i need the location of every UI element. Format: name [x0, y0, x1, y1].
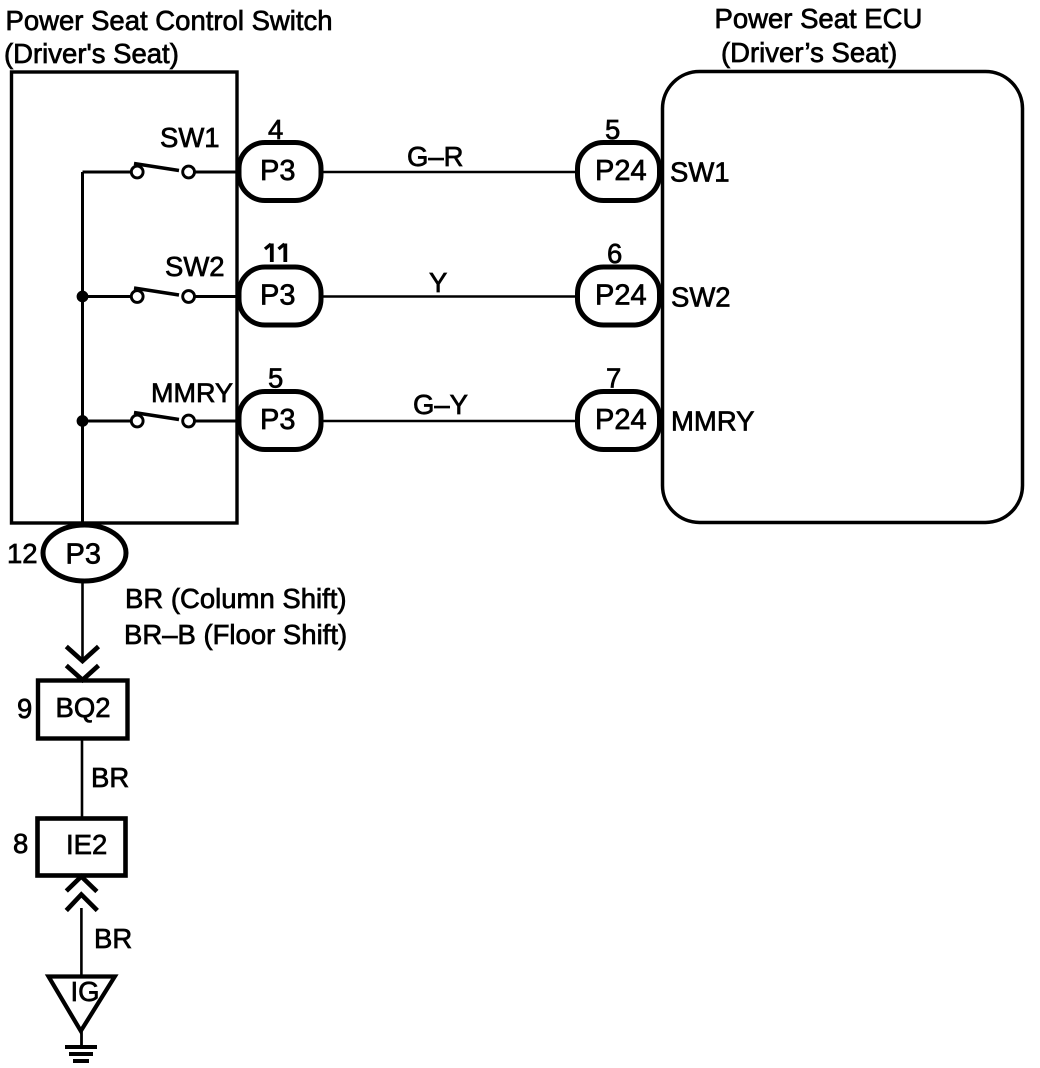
power seat ECU box U1 — [663, 72, 1023, 523]
svg-text:P24: P24 — [595, 280, 647, 312]
svg-text:MMRY: MMRY — [671, 406, 755, 437]
label: Power Seat ECU title — [715, 3, 923, 68]
wire BR 2 — [80, 908, 83, 976]
wire BR — [81, 739, 84, 820]
svg-text:P3: P3 — [260, 155, 295, 187]
svg-text:Power Seat ECU: Power Seat ECU — [715, 3, 923, 34]
svg-text:SW1: SW1 — [670, 157, 730, 188]
splice arrows up — [66, 877, 97, 911]
label SW2 — [165, 251, 225, 282]
connector IE2 — [38, 819, 126, 876]
wire Y — [320, 295, 578, 298]
junction row3 — [77, 415, 89, 427]
svg-text:BR–B (Floor Shift): BR–B (Floor Shift) — [124, 619, 347, 650]
svg-text:IE2: IE2 — [66, 829, 107, 860]
svg-text:6: 6 — [607, 238, 622, 269]
svg-text:9: 9 — [17, 693, 32, 724]
svg-text:BQ2: BQ2 — [56, 692, 111, 723]
svg-text:(Driver's Seat): (Driver's Seat) — [4, 38, 179, 69]
pin 6 — [607, 238, 622, 269]
label Y — [429, 267, 447, 298]
connector P24 pin 6 — [578, 267, 660, 325]
label G-R — [407, 141, 464, 172]
label MMRY — [151, 378, 233, 408]
pin 12 — [7, 538, 38, 569]
switch SW1 — [131, 164, 194, 178]
pin 4 — [268, 114, 283, 145]
pin 8 — [13, 828, 28, 859]
label BR (Column Shift) — [125, 583, 347, 614]
wire bus vertical — [81, 172, 84, 525]
wire row3 mid — [195, 420, 242, 423]
label BR 2 — [94, 923, 132, 954]
svg-text:5: 5 — [268, 363, 283, 394]
connector P3 pin 5 — [239, 392, 321, 450]
label MMRY ECU — [671, 406, 755, 437]
wire to ground — [80, 1031, 83, 1046]
svg-text:SW2: SW2 — [165, 251, 225, 282]
wire G-Y — [320, 420, 578, 423]
junction row2 — [77, 291, 89, 303]
pin 9 — [17, 693, 32, 724]
wire below P3 — [81, 581, 84, 660]
svg-text:G–Y: G–Y — [413, 389, 468, 420]
svg-text:12: 12 — [7, 538, 38, 569]
pin 5 — [605, 114, 620, 145]
ground — [65, 1047, 97, 1061]
switch SW2 — [131, 288, 194, 302]
wire row2 left — [83, 295, 132, 298]
connector P24 pin 7 — [578, 392, 660, 450]
power seat control switch box — [12, 72, 238, 523]
svg-text:MMRY: MMRY — [151, 378, 233, 408]
svg-text:8: 8 — [13, 828, 28, 859]
pin 7 — [606, 363, 621, 394]
pin 11 — [265, 244, 285, 263]
svg-text:BR: BR — [91, 762, 129, 793]
pin 5 — [268, 363, 283, 394]
connector BQ2 — [38, 681, 128, 739]
svg-text:P3: P3 — [260, 404, 295, 436]
svg-text:G–R: G–R — [407, 141, 464, 172]
svg-text:SW2: SW2 — [671, 282, 731, 313]
svg-text:P24: P24 — [595, 155, 647, 187]
label BR — [91, 762, 129, 793]
wire row3 left — [83, 420, 132, 423]
connector P3 pin 12 — [43, 525, 126, 581]
wire row1 left — [83, 171, 132, 174]
svg-text:SW1: SW1 — [160, 122, 220, 153]
label BR-B (Floor Shift) — [124, 619, 347, 650]
svg-text:(Driver’s Seat): (Driver’s Seat) — [721, 37, 897, 68]
wire row1 mid — [195, 171, 242, 174]
svg-text:Y: Y — [429, 267, 447, 298]
svg-text:P3: P3 — [66, 539, 101, 571]
label G-Y — [413, 389, 468, 420]
label SW1 — [160, 122, 220, 153]
label SW1 ECU — [670, 157, 730, 188]
svg-text:7: 7 — [606, 363, 621, 394]
connector P3 pin 4 — [239, 143, 321, 201]
label SW2 ECU — [671, 282, 731, 313]
label: Power Seat Control Switch title — [4, 5, 333, 69]
svg-text:Power Seat Control Switch: Power Seat Control Switch — [6, 5, 333, 36]
svg-text:P24: P24 — [595, 404, 647, 436]
splice arrows down — [66, 647, 98, 681]
svg-text:BR (Column Shift): BR (Column Shift) — [125, 583, 347, 614]
connector P24 pin 5 — [578, 143, 660, 201]
svg-text:P3: P3 — [260, 280, 295, 312]
wire row2 mid — [195, 295, 242, 298]
switch MMRY — [131, 413, 194, 427]
power source IG — [49, 976, 115, 1031]
svg-text:IG: IG — [71, 976, 100, 1007]
wire G-R — [320, 171, 578, 174]
svg-text:BR: BR — [94, 923, 132, 954]
connector P3 pin 11 — [239, 267, 321, 325]
